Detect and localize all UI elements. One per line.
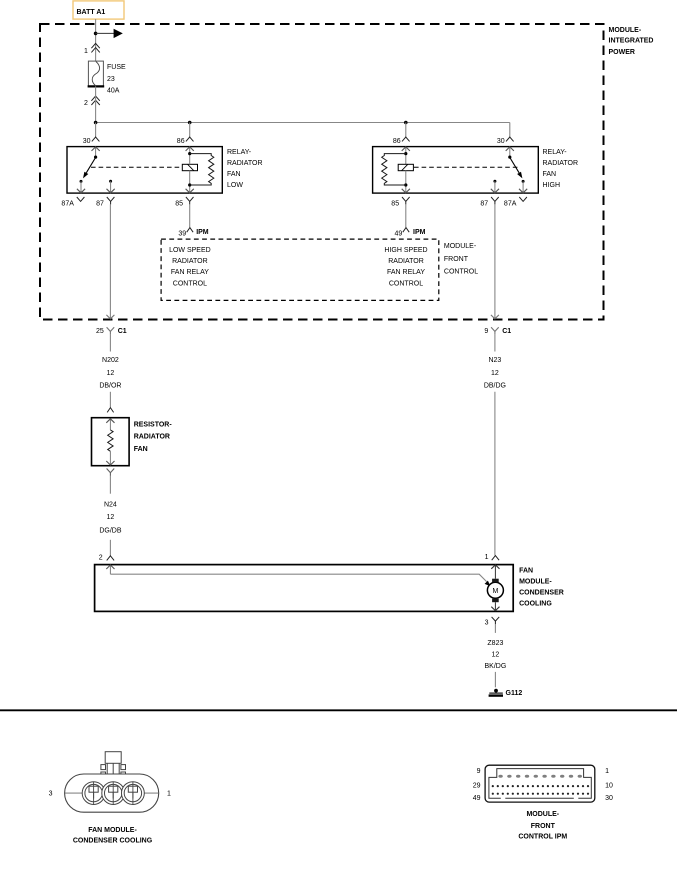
motor to pin 3 lead with arrow: [491, 602, 499, 610]
svg-text:RELAY-: RELAY-: [543, 149, 568, 156]
wire fuse to bus: [95, 86, 97, 122]
internal wire pin 2 to motor: [110, 574, 490, 586]
svg-text:FAN RELAY: FAN RELAY: [171, 269, 209, 276]
svg-text:40A: 40A: [107, 88, 120, 95]
svg-text:MODULE-: MODULE-: [526, 811, 559, 818]
connector face MODULE-FRONT CONTROL IPM outer shell: [485, 765, 595, 802]
wire N23 lower segment: [494, 392, 496, 556]
relay K2 pin 30 internal lead with arrow: [506, 147, 514, 157]
relay K2 coil top junction: [404, 152, 407, 155]
svg-text:FAN RELAY: FAN RELAY: [387, 269, 425, 276]
svg-text:INTEGRATED: INTEGRATED: [609, 38, 654, 45]
svg-text:LOW: LOW: [227, 182, 243, 189]
svg-text:30: 30: [605, 795, 613, 802]
svg-text:HIGH: HIGH: [543, 182, 561, 189]
svg-text:FUSE: FUSE: [107, 64, 126, 71]
node LOW SPEED RADIATOR FAN RELAY CONTROL: [169, 247, 211, 288]
svg-text:86: 86: [393, 138, 401, 145]
svg-text:Z823: Z823: [487, 640, 503, 647]
svg-text:RADIATOR: RADIATOR: [134, 434, 170, 441]
pin 85 chevron relay K2: [391, 197, 409, 207]
relay K2 pin 87 internal junction: [493, 180, 496, 183]
pin 87A chevron relay K1: [61, 197, 84, 207]
connector pin label 3: [49, 791, 53, 798]
svg-text:3: 3: [49, 791, 53, 798]
svg-text:RADIATOR: RADIATOR: [543, 160, 579, 167]
svg-text:CONTROL: CONTROL: [389, 280, 423, 287]
svg-text:CONTROL: CONTROL: [173, 280, 207, 287]
module U-IPM boundary (MODULE-INTEGRATED POWER dashed box): [40, 24, 653, 320]
svg-text:2: 2: [99, 555, 103, 562]
svg-text:1: 1: [605, 768, 609, 775]
svg-text:DB/OR: DB/OR: [99, 382, 121, 389]
svg-text:HIGH SPEED: HIGH SPEED: [384, 247, 427, 254]
node HIGH SPEED RADIATOR FAN RELAY CONTROL: [384, 247, 427, 288]
relay K2 coil to pin 85 lead with arrow: [402, 171, 410, 193]
pin 1 in-line connector chevrons at fuse: [84, 43, 100, 54]
svg-text:87A: 87A: [504, 200, 517, 207]
svg-text:CONTROL: CONTROL: [444, 268, 478, 275]
wire K2 pin 87 to connector C1 pin 9: [491, 204, 499, 318]
junction node on battery feed: [94, 32, 98, 36]
svg-text:BATT A1: BATT A1: [77, 9, 106, 16]
svg-text:RELAY-: RELAY-: [227, 149, 252, 156]
net label N202 12 DB/OR: [99, 357, 121, 389]
svg-text:30: 30: [83, 138, 91, 145]
relay K1 pin 87A internal lead with arrow: [77, 180, 85, 193]
svg-text:FAN: FAN: [134, 446, 148, 453]
connector C1 pin 9: [484, 327, 511, 335]
fan module pin 1 internal lead with arrow: [491, 565, 499, 579]
wire bus to K1 pin 86: [189, 123, 191, 138]
bus wire B+ horizontal: [96, 122, 510, 124]
relay K1 switch pivot junction: [94, 156, 97, 159]
svg-text:BK/DG: BK/DG: [485, 663, 507, 670]
svg-text:1: 1: [84, 48, 88, 55]
wire Z823 upper segment: [494, 624, 496, 633]
wire Z823 lower segment: [494, 672, 496, 687]
connector IPM bottom pin row (pins 30-49): [492, 793, 589, 795]
svg-text:3: 3: [485, 619, 489, 626]
relay K2 coil bottom junction: [404, 183, 407, 186]
svg-text:12: 12: [492, 651, 500, 658]
fan module pin 3 chevron: [485, 617, 500, 627]
junction bus/fuse: [94, 121, 98, 125]
relay K2 RELAY-RADIATOR FAN HIGH box: [373, 147, 578, 194]
pin 85 chevron relay K1: [175, 197, 193, 207]
svg-text:N24: N24: [104, 501, 117, 508]
section separator line: [0, 709, 677, 711]
pin 86 chevron relay K2: [393, 137, 410, 145]
svg-text:CONDENSER: CONDENSER: [519, 589, 564, 596]
pin 30 chevron relay K2: [497, 137, 514, 145]
connector IPM pin labels left: [473, 768, 481, 802]
relay K2 pin 87 internal lead with arrow: [491, 181, 499, 193]
pin 86 chevron relay K1: [177, 137, 194, 145]
svg-text:CONTROL IPM: CONTROL IPM: [518, 834, 567, 841]
svg-text:COOLING: COOLING: [519, 600, 552, 607]
resistor R1 RESISTOR-RADIATOR FAN box: [92, 418, 173, 466]
svg-text:49: 49: [473, 795, 481, 802]
svg-text:FRONT: FRONT: [444, 256, 469, 263]
svg-text:86: 86: [177, 138, 185, 145]
wire BATT A1 to fuse F23: [95, 19, 97, 61]
relay K2 parallel resistor: [382, 154, 406, 185]
svg-text:10: 10: [605, 783, 613, 790]
wire N202 12 DB/OR upper segment: [109, 334, 111, 351]
relay K1 actuation dashed link: [91, 166, 182, 168]
relay K2 pin 86 internal lead with arrow: [402, 147, 410, 165]
junction bus/relay K2 pin 86: [404, 121, 408, 125]
wire C1 pin 9 to fan module pin 1 (N23) upper segment: [494, 334, 496, 351]
svg-text:87: 87: [480, 200, 488, 207]
connector C1 pin 25: [96, 327, 127, 335]
fan module pin 2 internal lead with arrow: [106, 565, 114, 574]
svg-text:1: 1: [167, 791, 171, 798]
svg-text:FAN: FAN: [519, 567, 533, 574]
fan module pin 2 chevron: [99, 555, 114, 562]
motor M condenser cooling fan: [487, 579, 503, 603]
svg-text:39: 39: [178, 230, 186, 237]
svg-text:12: 12: [107, 514, 115, 521]
connector IPM middle pin row (pins 10-29): [492, 785, 589, 787]
svg-text:DB/DG: DB/DG: [484, 382, 506, 389]
svg-text:C1: C1: [118, 328, 127, 335]
svg-text:9: 9: [484, 328, 488, 335]
relay K1 coil to pin 85 lead with arrow: [186, 171, 194, 193]
relay K2 coil: [398, 164, 413, 170]
svg-text:9: 9: [477, 768, 481, 775]
svg-text:FAN: FAN: [227, 171, 241, 178]
net label Z823 12 BK/DG: [485, 640, 507, 670]
resistor-radiator fan pin chevron (top): [107, 408, 113, 413]
connector face FAN MODULE-CONDENSER COOLING body: [65, 774, 159, 812]
svg-text:85: 85: [391, 200, 399, 207]
svg-text:87: 87: [96, 200, 104, 207]
wire bus to K1 pin 30: [95, 123, 97, 138]
svg-text:RADIATOR: RADIATOR: [227, 160, 263, 167]
svg-text:RESISTOR-: RESISTOR-: [134, 421, 173, 428]
svg-text:FRONT: FRONT: [531, 823, 556, 830]
module front control dashed box: [161, 239, 439, 300]
connector pin label 1: [167, 791, 171, 798]
svg-text:12: 12: [491, 370, 499, 377]
relay K1 pin 87 internal lead with arrow: [107, 181, 115, 193]
svg-text:N202: N202: [102, 357, 119, 364]
ground G112: [489, 689, 523, 698]
junction bus/relay K1 pin 86: [188, 121, 192, 125]
svg-text:49: 49: [395, 230, 403, 237]
relay K1 switch blade to 87A: [83, 157, 96, 178]
pin 39 chevron IPM: [178, 228, 208, 238]
wire N202 lower segment: [109, 392, 111, 407]
svg-text:25: 25: [96, 328, 104, 335]
svg-text:M: M: [492, 588, 498, 595]
svg-text:MODULE-: MODULE-: [609, 27, 642, 34]
svg-text:IPM: IPM: [196, 229, 209, 236]
wire K2 pin 85 to IPM pin 49: [405, 204, 407, 227]
module FCM label (MODULE-FRONT CONTROL): [444, 243, 478, 276]
wire K1 pin 85 to IPM pin 39: [189, 204, 191, 227]
svg-text:23: 23: [107, 76, 115, 83]
svg-text:POWER: POWER: [609, 49, 635, 56]
connector cavity 3 (left): [82, 782, 105, 805]
svg-text:IPM: IPM: [413, 229, 426, 236]
relay K1 RELAY-RADIATOR FAN LOW box: [67, 147, 263, 194]
pin 49 chevron IPM: [395, 228, 426, 238]
connector IPM top pin row (pins 1-9): [498, 775, 582, 778]
net label N23 12 DB/DG: [484, 357, 506, 389]
relay K2 switch blade to 87A: [510, 157, 523, 178]
pin 30 chevron relay K1: [83, 137, 100, 145]
relay K1 coil: [182, 164, 197, 170]
connector IPM pin labels right: [605, 768, 613, 802]
battery feed BATT A1: [73, 1, 124, 19]
svg-text:85: 85: [175, 200, 183, 207]
svg-text:29: 29: [473, 783, 481, 790]
wire bus to K2 pin 30: [509, 123, 511, 138]
arrow tap to other circuits: [96, 29, 123, 38]
relay K2 pin 87A internal lead with arrow: [519, 180, 527, 193]
wire bus to K2 pin 86: [405, 123, 407, 138]
pin 87 chevron relay K1: [96, 197, 114, 207]
wire N24 12 DG/DB upper segment: [109, 476, 111, 494]
pin 2 in-line connector chevrons below fuse: [84, 96, 100, 107]
resistor R1 bottom chevron: [107, 469, 115, 476]
relay K2 switch pivot junction: [508, 156, 511, 159]
svg-text:N23: N23: [488, 357, 501, 364]
svg-text:MODULE-: MODULE-: [444, 243, 477, 250]
svg-text:LOW SPEED: LOW SPEED: [169, 247, 211, 254]
svg-text:RADIATOR: RADIATOR: [388, 258, 424, 265]
svg-text:DG/DB: DG/DB: [99, 528, 122, 535]
fan module M1 FAN MODULE-CONDENSER COOLING box: [95, 565, 564, 612]
svg-text:MODULE-: MODULE-: [519, 578, 552, 585]
svg-text:2: 2: [84, 100, 88, 107]
connector face MODULE-FRONT CONTROL IPM inner shell: [489, 769, 591, 799]
connector face FAN MODULE-CONDENSER COOLING latch: [101, 752, 126, 782]
relay K2 actuation dashed link: [414, 166, 519, 168]
resistor R1 element with arrows: [106, 419, 114, 465]
relay K1 parallel resistor: [190, 154, 214, 185]
caption MODULE-FRONT CONTROL IPM: [518, 811, 567, 841]
relay K1 pin 86 internal lead with arrow: [186, 147, 194, 165]
net label N24 12 DG/DB: [99, 501, 122, 534]
svg-text:1: 1: [485, 554, 489, 561]
relay K1 coil top junction: [188, 152, 191, 155]
svg-text:FAN: FAN: [543, 171, 557, 178]
svg-text:C1: C1: [502, 328, 511, 335]
connector cavity 1 (right): [121, 782, 144, 805]
wire N24 lower segment: [109, 540, 111, 556]
relay K1 coil bottom junction: [188, 183, 191, 186]
svg-text:12: 12: [107, 370, 115, 377]
relay K1 pin 87 internal junction: [109, 180, 112, 183]
svg-text:87A: 87A: [61, 200, 74, 207]
svg-text:RADIATOR: RADIATOR: [172, 258, 208, 265]
fan module pin 1 chevron: [485, 554, 500, 561]
svg-text:30: 30: [497, 138, 505, 145]
svg-text:G112: G112: [506, 690, 523, 697]
pin 87A chevron relay K2: [504, 197, 527, 207]
connector cavity 2 (middle): [102, 782, 125, 805]
fuse F23 40A: [88, 61, 126, 95]
svg-text:FAN MODULE-: FAN MODULE-: [88, 827, 137, 834]
svg-text:CONDENSER COOLING: CONDENSER COOLING: [73, 838, 153, 845]
relay K1 pin 30 internal lead with arrow: [92, 147, 100, 157]
pin 87 chevron relay K2: [480, 197, 498, 207]
caption FAN MODULE-CONDENSER COOLING: [73, 827, 153, 845]
wire K1 pin 87 to connector C1 pin 25: [106, 204, 114, 318]
